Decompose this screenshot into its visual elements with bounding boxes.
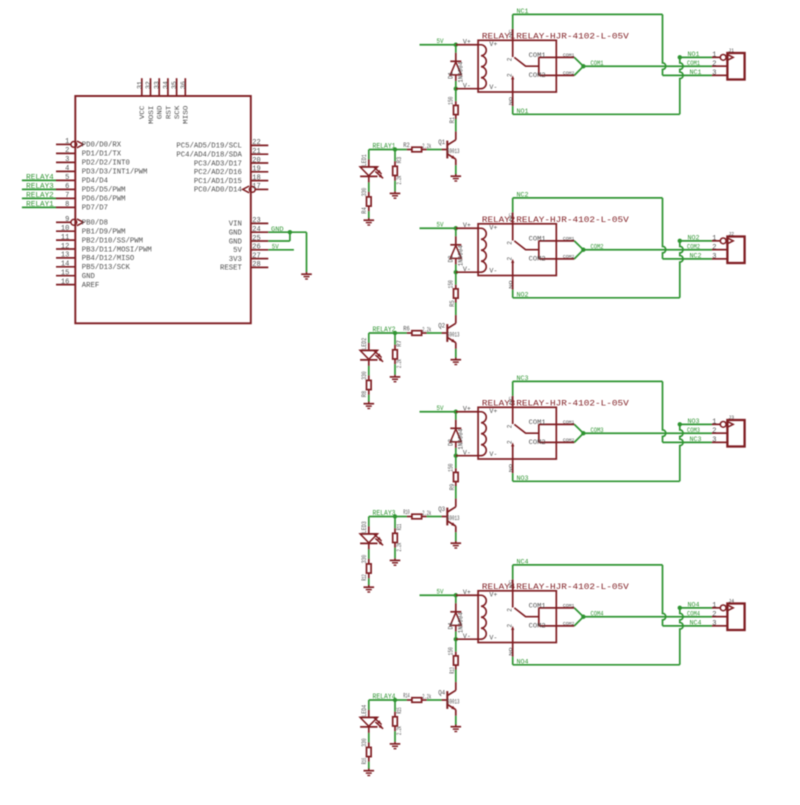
svg-text:NO: NO [508, 647, 514, 656]
svg-text:COM1: COM1 [529, 236, 546, 243]
svg-text:1: 1 [712, 419, 716, 427]
svg-text:J3: J3 [728, 414, 734, 421]
resistor R8 330 LED series [361, 366, 371, 402]
svg-text:V-: V- [489, 635, 497, 642]
svg-text:8: 8 [65, 201, 69, 209]
svg-text:S9013: S9013 [447, 148, 460, 155]
svg-text:R5: R5 [449, 300, 456, 307]
wire net 5V from pin 26 [268, 244, 294, 251]
LED LED3 [360, 521, 383, 549]
resistor R3 2.2k pulldown [393, 150, 403, 192]
junction V+ node channel 1 [454, 43, 458, 47]
svg-text:NC1: NC1 [517, 8, 529, 15]
svg-text:COM1: COM1 [529, 52, 546, 59]
IC U1 pin 3 PD2/D2/INT0 [56, 156, 130, 168]
svg-text:COM1: COM1 [591, 60, 604, 67]
svg-text:R6: R6 [403, 325, 410, 332]
junction V+ node channel 3 [454, 410, 458, 414]
ground R4 [364, 218, 375, 225]
svg-text:COM2: COM2 [529, 439, 546, 446]
junction V+ node channel 2 [454, 226, 458, 230]
IC U1 pin 31 VCC [136, 78, 147, 119]
svg-text:PC0/AD0/D14: PC0/AD0/D14 [194, 187, 243, 195]
svg-text:PD5/D5/PWM: PD5/D5/PWM [82, 187, 126, 195]
svg-text:12: 12 [61, 243, 69, 251]
svg-text:1: 1 [712, 235, 716, 243]
svg-text:1: 1 [712, 602, 716, 610]
IC U1 pin 26 5V [233, 244, 268, 256]
svg-text:R2: R2 [403, 142, 410, 149]
svg-text:GND: GND [271, 226, 284, 233]
svg-text:PB3/D11/MOSI/PWM: PB3/D11/MOSI/PWM [82, 246, 152, 254]
svg-text:S9013: S9013 [447, 515, 460, 522]
IC U1 pin 9 PB0/D8 [56, 216, 108, 228]
svg-text:GND: GND [157, 106, 165, 120]
svg-text:1N4004: 1N4004 [458, 61, 465, 82]
svg-text:RELAY1: RELAY1 [373, 143, 396, 151]
svg-text:2.2k: 2.2k [422, 694, 431, 701]
connector J1 3-pin [712, 47, 745, 80]
svg-text:PB2/D10/SS/PWM: PB2/D10/SS/PWM [82, 237, 143, 245]
wire net COM2 [574, 241, 712, 259]
transistor Q2 S9013 NPN [438, 315, 460, 358]
svg-text:150: 150 [448, 647, 455, 656]
IC U1 pin 27 3V3 [229, 252, 269, 264]
svg-text:2: 2 [507, 440, 514, 444]
relay RELAY3 RELAY-HJR-4102-L-05V [456, 396, 629, 473]
svg-text:330: 330 [361, 554, 368, 563]
svg-text:COM1: COM1 [563, 236, 575, 242]
svg-text:2: 2 [507, 241, 514, 245]
svg-text:25: 25 [252, 235, 260, 243]
svg-text:R3: R3 [396, 156, 403, 163]
wire net RELAY1 input [369, 143, 396, 159]
svg-text:330: 330 [361, 371, 368, 380]
transistor Q1 S9013 NPN [438, 132, 460, 175]
svg-text:Q2: Q2 [438, 323, 445, 330]
IC U1 pin 36 MISO [180, 78, 191, 124]
wire net 5V channel 1 [420, 38, 456, 45]
ground emitter Q4 [451, 725, 462, 732]
svg-text:150: 150 [448, 96, 455, 105]
svg-text:R4: R4 [361, 207, 368, 214]
svg-text:1N4004: 1N4004 [458, 245, 465, 266]
junction base node channel 2 [393, 331, 397, 335]
svg-text:RELAY-HJR-4102-L-05V: RELAY-HJR-4102-L-05V [516, 216, 629, 225]
svg-text:3: 3 [712, 70, 716, 78]
IC U1 pin 14 PB5/D13/SCK [56, 261, 130, 273]
wire net RELAY2 to IC [22, 192, 56, 200]
svg-text:NO: NO [508, 97, 514, 106]
svg-text:VCC: VCC [139, 106, 147, 120]
IC U1 pin 21 PC4/AD4/D18/SDA [176, 148, 268, 160]
svg-text:7: 7 [65, 192, 69, 200]
svg-text:NC2: NC2 [690, 253, 702, 260]
svg-text:2: 2 [712, 428, 716, 436]
resistor R7 2.2k pulldown [393, 333, 403, 375]
IC U1 pin 1 PD0/D0/RX [56, 138, 122, 150]
svg-text:1: 1 [712, 52, 716, 60]
svg-text:COM2: COM2 [529, 256, 546, 263]
junction COM4 node [581, 615, 585, 619]
svg-text:PC4/AD4/D18/SDA: PC4/AD4/D18/SDA [176, 152, 242, 160]
wire net 5V channel 4 [420, 588, 456, 595]
svg-text:LED3: LED3 [361, 521, 368, 533]
svg-text:1: 1 [65, 138, 69, 146]
svg-text:2.2k: 2.2k [396, 359, 403, 368]
wire net 5V channel 2 [420, 221, 456, 228]
svg-text:2.2k: 2.2k [396, 542, 403, 551]
svg-text:R8: R8 [361, 390, 368, 397]
svg-text:VIN: VIN [229, 221, 242, 229]
IC U1 pin 23 VIN [229, 217, 269, 229]
svg-text:NC: NC [508, 213, 514, 222]
svg-text:26: 26 [252, 244, 260, 252]
svg-text:NC4: NC4 [517, 559, 529, 566]
relay RELAY2 RELAY-HJR-4102-L-05V [456, 212, 629, 289]
wire net COM1 [574, 57, 712, 75]
svg-text:RELAY4: RELAY4 [373, 694, 396, 702]
svg-text:COM1: COM1 [563, 419, 575, 425]
svg-text:COM2: COM2 [529, 72, 546, 79]
IC U1 pin 12 PB3/D11/MOSI/PWM [56, 243, 152, 255]
svg-text:PB0/D8: PB0/D8 [82, 220, 108, 228]
IC U1 pin 17 PC0/AD0/D14 [194, 183, 268, 195]
svg-text:Q3: Q3 [438, 506, 445, 513]
svg-text:27: 27 [252, 252, 260, 260]
svg-text:NC: NC [508, 29, 514, 38]
IC U1 pin 2 PD1/D1/TX [56, 147, 122, 159]
IC U1 pin 28 RESET [220, 261, 268, 273]
svg-text:PC5/AD5/D19/SCL: PC5/AD5/D19/SCL [176, 143, 242, 151]
ground R11 [390, 558, 401, 565]
IC U1 pin 32 MOSI [145, 78, 156, 124]
svg-text:21: 21 [252, 148, 260, 156]
svg-text:R15: R15 [396, 707, 403, 714]
junction NO1 node [678, 55, 682, 59]
svg-text:COM2: COM2 [687, 243, 700, 250]
diode D2 1N4004 flyback [447, 228, 464, 272]
svg-text:RELAY-HJR-4102-L-05V: RELAY-HJR-4102-L-05V [516, 400, 629, 409]
wire net NO2 [513, 235, 712, 299]
svg-text:150: 150 [448, 280, 455, 289]
svg-text:LED4: LED4 [361, 704, 368, 716]
svg-text:RELAY1: RELAY1 [26, 201, 54, 209]
IC U1 pin 25 GND [229, 235, 269, 247]
svg-text:COM2: COM2 [529, 623, 546, 630]
svg-text:PB4/D12/MISO: PB4/D12/MISO [82, 255, 135, 263]
svg-text:NC: NC [508, 580, 514, 589]
svg-text:35: 35 [171, 81, 178, 89]
svg-text:COM4: COM4 [687, 610, 700, 617]
svg-text:14: 14 [61, 261, 69, 269]
resistor R13 150 [448, 639, 459, 682]
svg-text:COM2: COM2 [563, 621, 575, 627]
svg-text:5V: 5V [437, 405, 444, 412]
svg-text:R14: R14 [403, 692, 410, 699]
svg-text:22: 22 [252, 139, 260, 147]
junction V+ node channel 4 [454, 593, 458, 597]
IC U1 pin 15 GND [56, 270, 96, 282]
svg-text:V-: V- [489, 84, 497, 91]
svg-text:R7: R7 [396, 340, 403, 347]
resistor R5 150 [448, 272, 459, 315]
wire net COM3 [574, 424, 712, 442]
svg-text:RST: RST [165, 106, 173, 120]
svg-text:5V: 5V [272, 244, 279, 251]
svg-text:D4: D4 [447, 622, 454, 629]
svg-text:2: 2 [712, 611, 716, 619]
svg-text:PD7/D7: PD7/D7 [82, 205, 108, 213]
svg-text:2: 2 [712, 244, 716, 252]
junction NO2 node [678, 239, 682, 243]
svg-text:COM3: COM3 [591, 427, 604, 434]
svg-text:3: 3 [712, 253, 716, 261]
svg-text:3: 3 [712, 620, 716, 628]
svg-text:NC3: NC3 [690, 436, 702, 443]
svg-text:PD0/D0/RX: PD0/D0/RX [82, 142, 122, 150]
svg-text:2: 2 [712, 61, 716, 69]
svg-text:COM2: COM2 [563, 437, 575, 443]
ground R12 [364, 585, 375, 592]
svg-text:PD3/D3/INT1/PWM: PD3/D3/INT1/PWM [82, 169, 148, 177]
svg-text:RELAY-HJR-4102-L-05V: RELAY-HJR-4102-L-05V [516, 33, 629, 42]
resistor R9 150 [448, 456, 459, 499]
ground R16 [364, 769, 375, 776]
svg-text:6: 6 [65, 183, 69, 191]
svg-text:R16: R16 [361, 758, 368, 765]
svg-text:COM1: COM1 [563, 603, 575, 609]
svg-text:R11: R11 [396, 524, 403, 531]
IC U1 Arduino shield body [75, 96, 251, 323]
svg-text:23: 23 [252, 217, 260, 225]
svg-text:10: 10 [61, 225, 69, 233]
svg-text:R1: R1 [449, 116, 456, 123]
wire net NO3 [513, 418, 712, 482]
junction V- node channel 4 [454, 637, 458, 641]
svg-text:PD4/D4: PD4/D4 [82, 178, 109, 186]
wire net RELAY3 to IC [22, 183, 56, 191]
svg-text:330: 330 [361, 738, 368, 747]
resistor R2 2.2k base [395, 142, 442, 152]
LED LED2 [360, 337, 383, 365]
svg-text:NO: NO [508, 280, 514, 289]
svg-text:AREF: AREF [82, 282, 99, 290]
svg-text:COM1: COM1 [529, 419, 546, 426]
svg-text:16: 16 [61, 278, 69, 286]
LED LED4 [360, 704, 383, 732]
resistor R15 2.2k pulldown [393, 700, 403, 742]
IC U1 pin 6 PD5/D5/PWM [56, 183, 126, 195]
wire net GND from pin 24 [268, 226, 306, 233]
svg-text:330: 330 [361, 187, 368, 196]
svg-text:RELAY4: RELAY4 [26, 174, 54, 182]
diode D1 1N4004 flyback [447, 45, 464, 89]
svg-text:2.2k: 2.2k [422, 327, 431, 334]
svg-text:NC4: NC4 [690, 620, 702, 627]
svg-text:COM3: COM3 [687, 427, 700, 434]
svg-text:V-: V- [489, 451, 497, 458]
svg-text:5: 5 [65, 174, 69, 182]
ground emitter Q3 [451, 541, 462, 548]
svg-text:PB1/D9/PWM: PB1/D9/PWM [82, 229, 126, 237]
wire net NC1 [513, 8, 712, 76]
svg-text:3: 3 [712, 437, 716, 445]
svg-text:3V3: 3V3 [229, 256, 242, 264]
resistor R14 2.2k base [395, 692, 442, 702]
svg-text:Q4: Q4 [438, 690, 445, 697]
svg-text:PD2/D2/INT0: PD2/D2/INT0 [82, 160, 130, 168]
resistor R1 150 [448, 89, 459, 132]
svg-text:NO2: NO2 [517, 291, 529, 298]
svg-text:COM1: COM1 [563, 52, 575, 58]
svg-text:GND: GND [82, 273, 96, 281]
IC U1 pin 33 GND [154, 78, 165, 119]
wire net NO4 [513, 602, 712, 666]
svg-text:2: 2 [65, 147, 69, 155]
svg-text:19: 19 [252, 166, 260, 174]
junction COM2 node [581, 248, 585, 252]
svg-text:NC1: NC1 [690, 69, 702, 76]
svg-text:4: 4 [65, 165, 69, 173]
wire net NO1 [513, 51, 712, 115]
IC U1 pin 5 PD4/D4 [56, 174, 109, 186]
svg-text:18: 18 [252, 174, 260, 182]
transistor Q4 S9013 NPN [438, 682, 460, 725]
svg-text:5V: 5V [437, 221, 444, 228]
svg-text:PD1/D1/TX: PD1/D1/TX [82, 151, 122, 159]
svg-text:LED1: LED1 [361, 154, 368, 166]
junction base node channel 1 [393, 147, 397, 151]
resistor R6 2.2k base [395, 325, 442, 335]
ground R7 [390, 375, 401, 382]
ground emitter Q2 [451, 358, 462, 365]
transistor Q3 S9013 NPN [438, 499, 460, 542]
ground R3 [390, 191, 401, 198]
svg-text:V+: V+ [489, 408, 497, 415]
svg-text:PC2/AD2/D16: PC2/AD2/D16 [194, 169, 242, 177]
svg-text:COM1: COM1 [529, 603, 546, 610]
ground GND [301, 272, 312, 279]
svg-text:COM1: COM1 [687, 60, 700, 67]
junction base node channel 4 [393, 698, 397, 702]
ground R15 [390, 742, 401, 749]
IC U1 pin 24 GND [229, 226, 269, 238]
svg-text:5V: 5V [437, 588, 444, 595]
junction NO3 node [678, 422, 682, 426]
svg-text:2.2k: 2.2k [396, 726, 403, 735]
svg-text:NC: NC [508, 396, 514, 405]
svg-text:Q1: Q1 [438, 139, 445, 146]
wire net GND from pin 25 [268, 232, 290, 241]
svg-text:NO3: NO3 [688, 418, 700, 425]
ground emitter Q1 [451, 174, 462, 181]
svg-text:PD6/D6/PWM: PD6/D6/PWM [82, 196, 126, 204]
svg-text:RESET: RESET [220, 265, 242, 273]
svg-text:NO4: NO4 [688, 602, 700, 609]
LED LED1 [360, 154, 383, 182]
svg-text:COM2: COM2 [591, 243, 604, 250]
wire net NC4 [513, 559, 712, 627]
svg-text:NO1: NO1 [688, 51, 700, 58]
svg-text:D1: D1 [447, 72, 454, 79]
svg-text:24: 24 [252, 226, 260, 234]
svg-text:NC2: NC2 [517, 192, 529, 199]
IC U1 pin 13 PB4/D12/MISO [56, 252, 135, 264]
IC U1 pin 18 PC1/AD1/D15 [194, 174, 268, 186]
IC U1 pin 19 PC2/AD2/D16 [194, 166, 268, 178]
svg-text:13: 13 [61, 252, 69, 260]
svg-text:V-: V- [489, 268, 497, 275]
IC U1 pin 4 PD3/D3/INT1/PWM [56, 165, 147, 177]
svg-text:S9013: S9013 [447, 698, 460, 705]
svg-text:1N4004: 1N4004 [458, 428, 465, 449]
junction COM3 node [581, 431, 585, 435]
IC U1 pin 16 AREF [56, 278, 99, 290]
wire net RELAY4 to IC [22, 174, 56, 182]
svg-text:2.2k: 2.2k [422, 510, 431, 517]
svg-text:NO1: NO1 [517, 108, 529, 115]
svg-text:COM2: COM2 [563, 70, 575, 76]
svg-text:GND: GND [229, 238, 243, 246]
svg-text:V+: V+ [489, 224, 497, 231]
junction V- node channel 2 [454, 270, 458, 274]
svg-text:SCK: SCK [174, 105, 182, 120]
wire net RELAY4 input [369, 694, 396, 710]
junction NO4 node [678, 606, 682, 610]
connector J2 3-pin [712, 231, 745, 264]
connector J4 3-pin [712, 598, 745, 631]
svg-text:RELAY3: RELAY3 [373, 510, 396, 518]
svg-text:MOSI: MOSI [148, 106, 156, 124]
svg-text:S9013: S9013 [447, 331, 460, 338]
wire net NC2 [513, 192, 712, 260]
junction V- node channel 3 [454, 454, 458, 458]
svg-text:RELAY3: RELAY3 [26, 183, 54, 191]
relay RELAY4 RELAY-HJR-4102-L-05V [456, 579, 629, 656]
svg-text:D2: D2 [447, 255, 454, 262]
svg-text:11: 11 [61, 234, 69, 242]
svg-text:R9: R9 [449, 483, 456, 490]
svg-text:2: 2 [507, 608, 514, 612]
resistor R12 330 LED series [361, 549, 371, 585]
svg-text:R13: R13 [449, 667, 456, 674]
svg-text:NC3: NC3 [517, 375, 529, 382]
IC U1 pin 20 PC3/AD3/D17 [194, 157, 268, 169]
svg-text:3: 3 [65, 156, 69, 164]
diode D4 1N4004 flyback [447, 595, 464, 639]
svg-text:150: 150 [448, 463, 455, 472]
svg-text:2: 2 [507, 57, 514, 61]
IC U1 pin 22 PC5/AD5/D19/SCL [176, 139, 268, 151]
wire net RELAY1 to IC [22, 201, 56, 209]
svg-text:LED2: LED2 [361, 337, 368, 349]
svg-text:PB5/D13/SCK: PB5/D13/SCK [82, 264, 131, 272]
wire net 5V channel 3 [420, 405, 456, 412]
IC U1 pin 10 PB1/D9/PWM [56, 225, 126, 237]
svg-text:NO4: NO4 [517, 658, 529, 665]
svg-text:J4: J4 [728, 598, 735, 605]
svg-text:15: 15 [61, 270, 69, 278]
svg-text:2.2k: 2.2k [396, 175, 403, 184]
svg-text:MISO: MISO [183, 106, 191, 124]
svg-text:J1: J1 [728, 47, 735, 54]
junction base node channel 3 [393, 514, 397, 518]
svg-text:R10: R10 [403, 509, 410, 516]
svg-text:V+: V+ [489, 591, 497, 598]
wire net NC3 [513, 375, 712, 443]
wire net RELAY3 input [369, 510, 396, 526]
